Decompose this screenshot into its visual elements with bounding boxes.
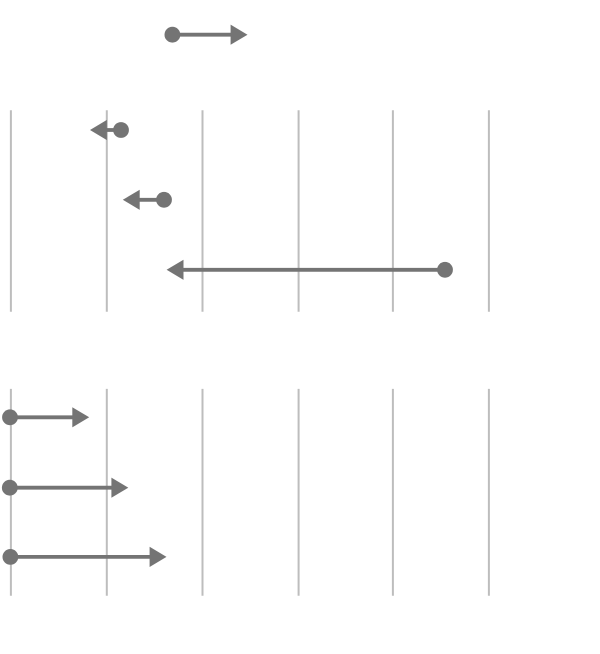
- panel 1 gridline 6: [488, 110, 490, 312]
- panel 1 gridline 4: [298, 110, 300, 312]
- panel 2 gridline 2: [106, 389, 108, 596]
- arrow A2 panel 1 row 2: left arrow + dot: [123, 190, 172, 210]
- arrow A4 panel 2 row 1: dot + right arrow: [2, 407, 89, 427]
- panel 1 gridline 2: [106, 110, 108, 312]
- panel 2 gridline 3: [202, 389, 204, 596]
- panel 2 gridline 4: [298, 389, 300, 596]
- panel 2 gridline 1: [10, 389, 12, 596]
- panel 2 gridline 5: [392, 389, 394, 596]
- arrow A3 panel 1 row 3: long left arrow + dot: [167, 260, 453, 280]
- arrow A0 top: dot + right arrow: [165, 25, 248, 45]
- arrow A1 panel 1 row 1: left arrow + dot: [90, 120, 129, 140]
- panel 1 gridline 5: [392, 110, 394, 312]
- panel 1 gridline 1: [10, 110, 12, 312]
- arrow A5 panel 2 row 2: dot + right arrow: [2, 478, 128, 498]
- panel 2 gridline 6: [488, 389, 490, 596]
- arrow A6 panel 2 row 3: dot + right arrow: [2, 547, 166, 567]
- panel 1 gridline 3: [202, 110, 204, 312]
